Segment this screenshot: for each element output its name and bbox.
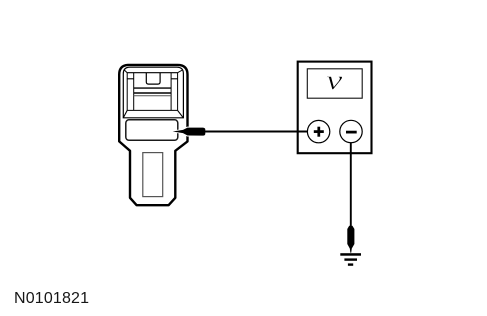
connector C1 channel step stubs xyxy=(127,78,134,80)
figure number label N0101821 xyxy=(14,290,89,308)
connector C1 cross rib band lines xyxy=(134,87,171,89)
voltmeter V1 display window xyxy=(307,69,362,98)
ground symbol bar 3 xyxy=(348,263,353,265)
voltmeter V1 case xyxy=(298,62,372,154)
connector C1 inner shell outline xyxy=(123,67,183,118)
connector C1 top corner perspective diagonals xyxy=(124,70,127,73)
probe tip at connector xyxy=(173,128,206,136)
ground symbol bar 1 xyxy=(340,253,361,256)
voltmeter V1 negative terminal circle xyxy=(340,120,362,142)
ground symbol bar 2 xyxy=(344,258,357,260)
connector C1 left channel wall lines xyxy=(126,73,128,111)
wire probe to voltmeter positive terminal xyxy=(205,131,308,133)
connector C1 cavity back-wall top line xyxy=(127,72,177,74)
voltmeter V1 positive terminal circle xyxy=(307,120,329,142)
voltmeter V1 minus sign xyxy=(346,131,357,134)
wire negative terminal to ground probe xyxy=(350,143,352,227)
connector C1 stem cavity rect xyxy=(143,153,163,197)
connector C1 latch tab xyxy=(146,73,160,84)
connector C1 cavity floor line xyxy=(127,109,177,111)
voltmeter V1 plus sign xyxy=(314,130,324,133)
connector C1 right channel wall lines xyxy=(170,73,172,111)
svg-text:v: v xyxy=(326,64,343,95)
connector C1 outer body xyxy=(119,65,187,205)
connector C1 floor perspective diagonals xyxy=(123,110,127,117)
ground probe body xyxy=(347,226,354,253)
connector C1 terminal window xyxy=(126,120,178,141)
